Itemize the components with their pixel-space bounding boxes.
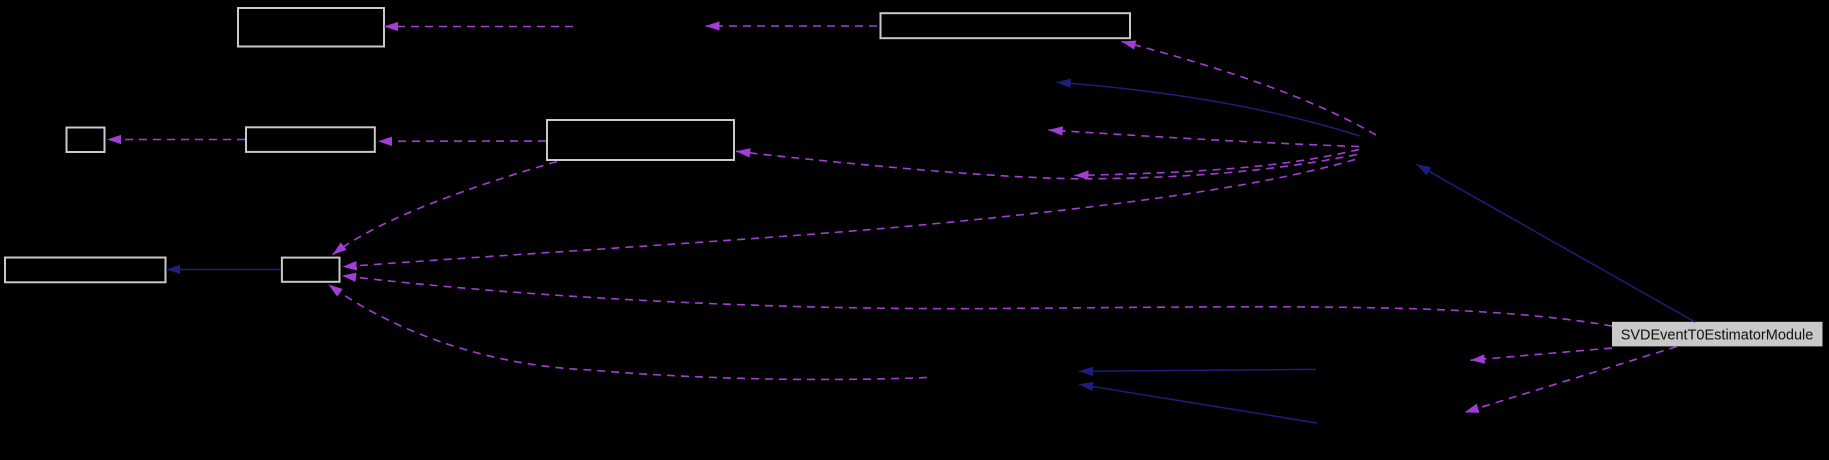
svg-text:SVDEventT0EstimatorModule: SVDEventT0EstimatorModule [1621, 328, 1814, 344]
